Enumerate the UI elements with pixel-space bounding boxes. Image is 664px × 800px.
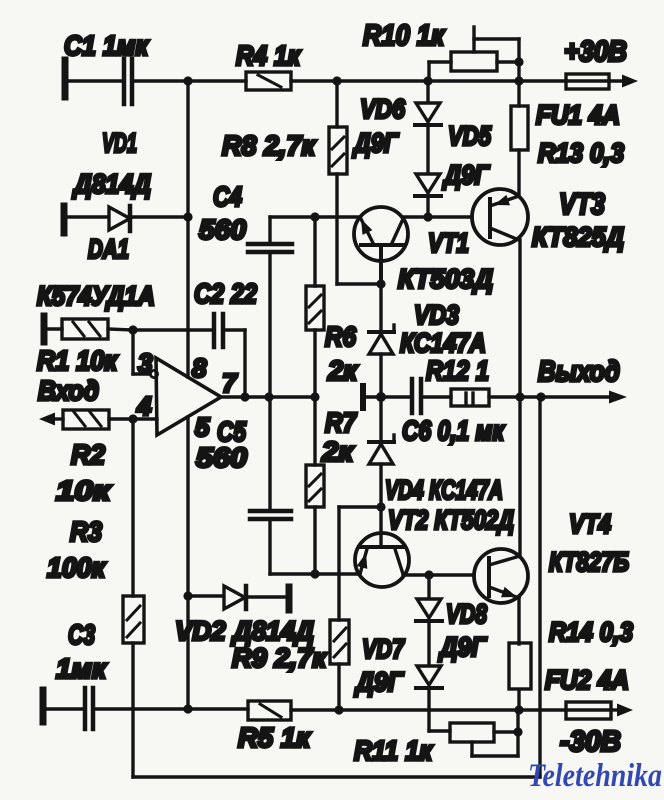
resistor R2 with input arrow <box>39 410 157 429</box>
diode VD7 <box>416 666 442 731</box>
transistor VT3 <box>472 189 528 245</box>
diode VD6 <box>415 81 441 174</box>
node C4/C5 <box>264 392 273 401</box>
wire output arrow <box>520 391 627 404</box>
node VD6/R10 left <box>423 76 432 85</box>
svg-text:R12 1: R12 1 <box>426 355 489 386</box>
resistor R5 <box>248 701 291 720</box>
svg-text:FU1 4А: FU1 4А <box>536 100 620 130</box>
node output/feedback <box>536 392 545 401</box>
svg-text:Выход: Выход <box>538 356 620 388</box>
svg-text:VT1: VT1 <box>428 228 469 258</box>
resistor R10 <box>429 52 519 79</box>
fuse FU1 <box>566 74 609 89</box>
wire top rail <box>134 79 246 82</box>
resistor R6 <box>306 217 324 397</box>
svg-text:С2 22: С2 22 <box>194 278 257 309</box>
svg-text:VD8: VD8 <box>446 599 487 629</box>
resistor R3 <box>123 596 144 777</box>
svg-text:560: 560 <box>199 214 246 245</box>
node R6/R7 <box>310 392 319 401</box>
diode VD8 <box>416 575 442 666</box>
svg-text:8: 8 <box>192 353 207 383</box>
node zener mid/C6/common terminal <box>376 392 386 402</box>
svg-text:К574УД1А: К574УД1А <box>37 281 155 311</box>
node VD4/VT2 base <box>376 502 385 511</box>
svg-text:КТ827Б: КТ827Б <box>549 547 629 577</box>
svg-text:FU2 4А: FU2 4А <box>545 665 629 695</box>
wire bottom rail right <box>291 708 566 711</box>
svg-text:VT4: VT4 <box>569 509 611 539</box>
svg-text:Д9Г: Д9Г <box>442 160 490 190</box>
wire VD4 node to R9 <box>339 507 381 620</box>
svg-text:R8 2,7к: R8 2,7к <box>222 130 317 161</box>
capacitor C4 <box>248 217 292 397</box>
svg-text:R3: R3 <box>70 516 102 547</box>
wire VT1 emitter left <box>270 215 360 218</box>
wire VT2 base down from VD4 <box>379 507 382 547</box>
resistor R12 <box>451 389 520 406</box>
svg-text:С3: С3 <box>68 619 95 650</box>
resistor R11 <box>429 723 518 742</box>
svg-text:R4 1к: R4 1к <box>236 40 302 71</box>
svg-text:R14 0,3: R14 0,3 <box>549 617 633 647</box>
capacitor C1 <box>65 59 132 104</box>
svg-text:VD4 КС147А: VD4 КС147А <box>385 475 503 505</box>
svg-text:КТ825Д: КТ825Д <box>532 222 624 252</box>
zener VD4 <box>369 397 394 507</box>
svg-text:1мк: 1мк <box>56 653 108 684</box>
svg-text:R7: R7 <box>325 407 357 438</box>
node C2 feedback <box>240 392 249 401</box>
op-amp DA1 triangle <box>156 358 221 435</box>
node C1/R4/VD1 junction <box>183 76 192 85</box>
wire -30V arrow <box>611 704 633 717</box>
wire op-amp output <box>221 395 315 398</box>
resistor R13 <box>511 106 528 196</box>
svg-text:VD6: VD6 <box>360 94 406 124</box>
fuse FU2 <box>566 702 611 719</box>
svg-text:DA1: DA1 <box>88 234 129 264</box>
wire pin3 <box>133 330 158 378</box>
wire bottom feedback line <box>133 397 540 777</box>
svg-text:Д9Г: Д9Г <box>438 632 487 662</box>
diode VD5 <box>415 174 441 217</box>
svg-text:С6 0,1 мк: С6 0,1 мк <box>402 415 505 446</box>
zener VD3 <box>369 284 394 397</box>
node output/VT3-VT4 collectors <box>515 392 524 401</box>
svg-text:VD1: VD1 <box>102 128 137 158</box>
node R1/C2/pin3 <box>128 325 137 334</box>
svg-text:С4: С4 <box>213 181 242 212</box>
node VT1 base / zener chain <box>376 279 385 288</box>
svg-text:R2: R2 <box>71 439 105 470</box>
svg-text:VT3: VT3 <box>559 188 605 221</box>
node VT2 collector/VD8 <box>424 570 433 579</box>
node R2/pin4/R3 <box>128 414 137 423</box>
svg-text:КТ503Д: КТ503Д <box>398 264 493 294</box>
wire pin5 vertical <box>186 417 189 709</box>
resistor R14 <box>509 598 531 710</box>
node R7 bottom <box>310 569 319 578</box>
svg-text:560: 560 <box>196 442 247 473</box>
transistor VT4 <box>474 549 528 603</box>
node R14 bottom <box>514 705 523 714</box>
svg-text:2к: 2к <box>327 355 359 386</box>
capacitor C3 <box>43 688 93 729</box>
wire pin4 node down to R3 <box>131 419 134 596</box>
svg-text:+30В: +30В <box>564 36 627 68</box>
wire R10 wiper <box>474 27 519 106</box>
capacitor C2 <box>133 314 245 397</box>
node R9 bottom <box>334 705 343 714</box>
capacitor C6 <box>381 379 451 413</box>
transistor VT1 <box>354 207 408 284</box>
svg-text:VT2 КТ502Д: VT2 КТ502Д <box>388 505 514 535</box>
svg-text:Д814Д: Д814Д <box>72 169 151 199</box>
resistor R7 <box>306 397 324 574</box>
transistor VT2 <box>355 533 409 587</box>
common terminal bar <box>363 386 381 408</box>
svg-text:-30В: -30В <box>560 726 621 758</box>
svg-text:R10 1к: R10 1к <box>363 20 445 52</box>
svg-text:Д9Г: Д9Г <box>352 128 399 158</box>
svg-text:R13 0,3: R13 0,3 <box>538 138 624 168</box>
node R11 right/wiper <box>513 727 522 736</box>
diode VD1 <box>64 206 186 233</box>
wire C5/R7 to VT2 emitter <box>270 572 360 575</box>
svg-text:R11 1к: R11 1к <box>354 735 434 766</box>
svg-text:R1 10к: R1 10к <box>37 345 119 376</box>
node R8 top <box>332 76 341 85</box>
wire R8 to VT1 base <box>337 282 381 285</box>
capacitor C5 <box>250 397 291 574</box>
svg-text:R9 2,7к: R9 2,7к <box>232 643 327 673</box>
node R10 wiper/right lead <box>514 57 523 66</box>
svg-text:7: 7 <box>222 368 238 398</box>
wire VT2 collector to VT4 base <box>403 573 474 576</box>
wire bottom rail left <box>94 707 248 710</box>
wire R11 wiper <box>472 710 518 756</box>
svg-text:VD5: VD5 <box>448 121 492 151</box>
wire +30V arrow <box>609 75 638 88</box>
svg-text:3: 3 <box>138 348 153 378</box>
node VD5/VT1 collector/VT3 base <box>423 212 432 221</box>
svg-text:100к: 100к <box>47 552 107 583</box>
wire VT1 collector to VT3 base <box>403 215 472 218</box>
svg-text:10к: 10к <box>56 475 112 506</box>
svg-text:Д9Г: Д9Г <box>354 667 404 697</box>
node pin5 line to rail <box>183 704 192 713</box>
svg-text:С1 1мк: С1 1мк <box>64 30 150 61</box>
svg-text:4: 4 <box>136 391 152 421</box>
node VD1/pin8 line <box>183 212 192 221</box>
diode VD2 <box>188 586 289 610</box>
node R6 top <box>310 212 319 221</box>
svg-text:VD7: VD7 <box>362 634 406 664</box>
resistor R1 <box>44 316 133 342</box>
svg-text:2к: 2к <box>321 436 355 467</box>
svg-text:Teletehnika: Teletehnika <box>528 758 662 794</box>
svg-text:VD3: VD3 <box>414 300 459 330</box>
svg-text:R6: R6 <box>325 321 356 352</box>
resistor R8 <box>329 81 347 284</box>
svg-text:VD2 Д814Д: VD2 Д814Д <box>175 616 314 646</box>
svg-text:5: 5 <box>195 412 210 442</box>
wire pin8 vertical from C1 node <box>186 81 189 377</box>
svg-text:КС147А: КС147А <box>400 328 486 358</box>
wire top rail right <box>291 79 566 82</box>
node R10 right/rail <box>514 76 523 85</box>
resistor R9 <box>330 620 349 710</box>
resistor R4 <box>246 72 291 90</box>
svg-text:Вход: Вход <box>38 375 99 406</box>
wire VT3 collector down to output <box>518 240 521 556</box>
node VD2 <box>183 591 192 600</box>
svg-text:R5 1к: R5 1к <box>238 722 312 753</box>
